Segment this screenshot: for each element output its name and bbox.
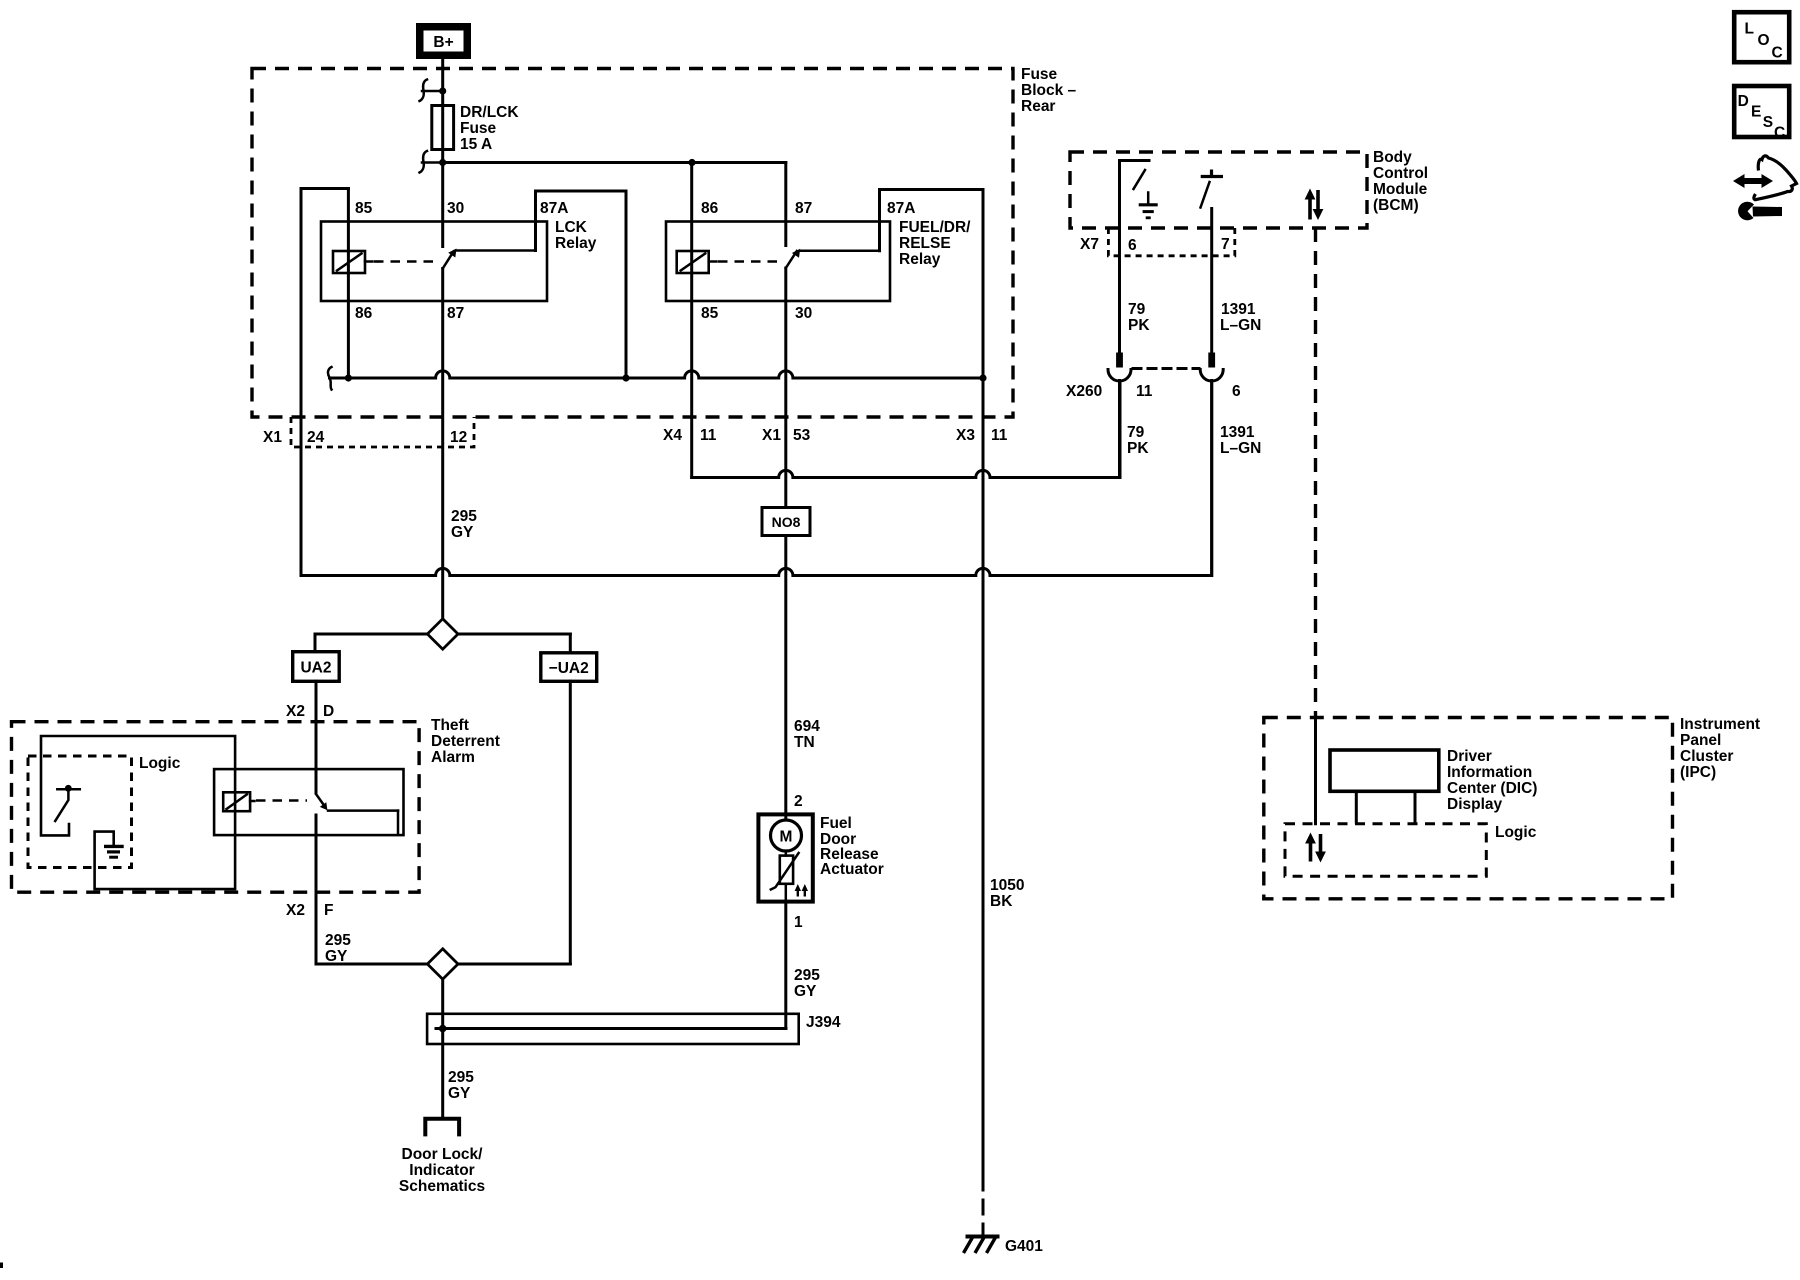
svg-text:11: 11 [1136, 383, 1153, 400]
svg-text:Panel: Panel [1680, 732, 1721, 749]
splice diamond upper [315, 619, 570, 649]
dashed serial data line BCM to IPC [1314, 228, 1317, 718]
svg-text:X260: X260 [1066, 383, 1102, 400]
BCM internal switch to ground (pin 6) [1120, 161, 1150, 190]
label: Fuse Block - Rear [1021, 66, 1077, 115]
svg-text:24: 24 [307, 429, 325, 446]
svg-text:Cluster: Cluster [1680, 748, 1733, 765]
terminal UA2 [293, 652, 340, 682]
svg-text:M: M [780, 829, 793, 846]
hand-drawn tools icon [1733, 156, 1797, 220]
svg-text:6: 6 [1128, 237, 1137, 254]
wire: fused B+ horizontal feed [443, 161, 786, 164]
svg-text:BK: BK [990, 893, 1013, 910]
svg-text:X2: X2 [286, 902, 305, 919]
svg-text:Center (DIC): Center (DIC) [1447, 780, 1537, 797]
wire: left branch down to X1-24 and splice line [300, 189, 303, 576]
B+ battery terminal [416, 23, 471, 59]
svg-text:Fuse: Fuse [1021, 66, 1058, 83]
wire label: 1391 L-GN upper [1220, 301, 1261, 334]
svg-text:NO8: NO8 [772, 514, 801, 530]
wire: lower splice horizontal [316, 963, 570, 966]
svg-text:Fuel: Fuel [820, 815, 852, 832]
wire: diamond to UA2 [314, 634, 317, 652]
svg-text:PK: PK [1128, 317, 1150, 334]
BCM internal switch (pin 7) [1201, 170, 1224, 208]
label: Driver Information Center (DIC) Display [1447, 748, 1537, 813]
splice pack J394 [427, 1014, 799, 1044]
svg-text:GY: GY [448, 1085, 471, 1102]
svg-text:C: C [1772, 45, 1783, 62]
connector X1 (fuse block) dashed outline [291, 417, 474, 447]
svg-text:87: 87 [447, 305, 464, 322]
svg-text:79: 79 [1128, 301, 1146, 318]
wire: B+ feed down to fuse [441, 59, 444, 106]
DIC display [1330, 750, 1439, 822]
theft alarm internal ground symbol [104, 846, 124, 857]
svg-text:J394: J394 [806, 1014, 841, 1031]
wire: serial data into IPC logic [1314, 718, 1317, 824]
svg-text:Module: Module [1373, 181, 1428, 198]
svg-text:C: C [1774, 125, 1785, 142]
svg-text:FUEL/DR/: FUEL/DR/ [899, 219, 971, 236]
in-line connector X260 pin 6 [1200, 353, 1223, 382]
label: connector X2 pin F [286, 902, 333, 919]
terminal -UA2 [541, 653, 597, 682]
wire label: 79 PK lower [1127, 424, 1149, 457]
label: DR/LCK Fuse 15 A [460, 104, 519, 153]
svg-text:X3: X3 [956, 427, 975, 444]
svg-text:295: 295 [451, 508, 477, 525]
wire label: 1391 L-GN lower [1220, 424, 1261, 457]
wire: diamond down to J394 [441, 979, 444, 1028]
svg-text:30: 30 [447, 200, 464, 217]
svg-text:1: 1 [794, 914, 803, 931]
wire: FUEL coil ground path to BCM with humps [692, 382, 1120, 478]
wire: long splice line from left branch to 1391 L-GN with humps [301, 382, 1212, 576]
svg-text:Alarm: Alarm [431, 749, 475, 766]
Fuse Block - Rear dashed enclosure [252, 69, 1013, 418]
svg-text:85: 85 [355, 200, 373, 217]
svg-text:Indicator: Indicator [409, 1162, 474, 1179]
svg-text:UA2: UA2 [300, 660, 331, 677]
svg-text:Actuator: Actuator [820, 861, 884, 878]
svg-text:Body: Body [1373, 149, 1412, 166]
svg-text:11: 11 [991, 427, 1008, 444]
svg-text:RELSE: RELSE [899, 235, 951, 252]
DESC reference box [1734, 86, 1789, 142]
junction: FUEL pin 87A wire to bus [979, 374, 986, 381]
Body Control Module (BCM) dashed enclosure [1070, 152, 1367, 228]
svg-text:87A: 87A [887, 200, 915, 217]
wire: X260 pin 11 down to corner [1118, 381, 1121, 478]
svg-text:295: 295 [794, 967, 820, 984]
svg-text:79: 79 [1127, 424, 1145, 441]
wire label: 295 GY (pin F) [325, 932, 351, 965]
svg-text:L–GN: L–GN [1220, 440, 1261, 457]
svg-text:6: 6 [1232, 383, 1241, 400]
wire: FUEL pin 30 down through NO8 to actuator [784, 268, 787, 820]
wire label: 1050 BK [990, 877, 1024, 910]
svg-text:11: 11 [700, 427, 717, 444]
wire: BCM pin 7 down to X260 [1210, 209, 1213, 353]
svg-text:X7: X7 [1080, 236, 1099, 253]
fuel door release actuator M1 [758, 814, 812, 901]
wire: -UA2 down to lower splice line [569, 681, 572, 964]
in-line connector symbol at B+ feed [420, 80, 447, 102]
svg-text:86: 86 [355, 305, 373, 322]
svg-text:15 A: 15 A [460, 136, 492, 153]
svg-text:O: O [1758, 32, 1770, 49]
theft alarm relay [214, 769, 403, 835]
BCM internal ground symbol [1139, 193, 1158, 218]
in-line connector symbol below fuse [420, 151, 447, 173]
svg-text:Information: Information [1447, 764, 1532, 781]
wire: actuator pin 1 down to J394 [784, 902, 787, 1029]
svg-text:Logic: Logic [139, 755, 181, 772]
svg-text:Deterrent: Deterrent [431, 733, 500, 750]
svg-text:Fuse: Fuse [460, 120, 497, 137]
svg-text:L–GN: L–GN [1220, 317, 1261, 334]
svg-text:PK: PK [1127, 440, 1149, 457]
wire: diamond to -UA2 [569, 634, 572, 653]
label: Theft Deterrent Alarm [431, 717, 500, 766]
svg-text:1391: 1391 [1221, 301, 1256, 318]
label: FUEL/DR/RELSE Relay [899, 219, 971, 268]
svg-text:Door Lock/: Door Lock/ [402, 1146, 484, 1163]
svg-text:B+: B+ [433, 34, 453, 51]
svg-text:G401: G401 [1005, 1238, 1043, 1255]
wire: fuse to junction [441, 150, 444, 163]
BCM serial data up/down arrows [1305, 189, 1324, 221]
svg-text:86: 86 [701, 200, 719, 217]
in-line connector X260 pin 11 [1108, 353, 1131, 382]
svg-text:694: 694 [794, 718, 820, 735]
svg-text:L: L [1745, 21, 1754, 38]
svg-text:295: 295 [325, 932, 351, 949]
svg-text:2: 2 [794, 793, 803, 810]
svg-text:GY: GY [451, 524, 474, 541]
svg-text:Theft: Theft [431, 717, 469, 734]
svg-text:1391: 1391 [1220, 424, 1255, 441]
wire: BCM pin 6 down to X260 [1118, 161, 1121, 353]
dashed tie between X260 halves [1133, 367, 1199, 370]
wire: J394 down to door lock schematics [441, 1029, 444, 1119]
theft alarm internal switch [55, 785, 80, 821]
in-line connector hook at bus left end [328, 367, 332, 390]
relay K2 FUEL/DR/RELSE Relay [666, 163, 983, 478]
svg-text:30: 30 [795, 305, 812, 322]
label: connector X2 pin D [286, 703, 334, 720]
svg-text:Relay: Relay [555, 235, 597, 252]
wire: jog pin85 to left branch [301, 187, 348, 190]
svg-text:TN: TN [794, 734, 815, 751]
IPC Logic dashed box [1285, 824, 1486, 877]
svg-text:Rear: Rear [1021, 98, 1055, 115]
wire: 1050 BK down to G401 [982, 378, 985, 1176]
LOC reference box [1734, 12, 1789, 62]
page corner mark [0, 1263, 3, 1269]
svg-text:7: 7 [1221, 236, 1230, 253]
label: Instrument Panel Cluster (IPC) [1680, 716, 1760, 781]
svg-text:DR/LCK: DR/LCK [460, 104, 519, 121]
svg-text:Block –: Block – [1021, 82, 1077, 99]
svg-text:(IPC): (IPC) [1680, 764, 1716, 781]
svg-text:Display: Display [1447, 796, 1503, 813]
junction: LCK pin 86 to bus [345, 374, 352, 381]
svg-text:X1: X1 [762, 427, 781, 444]
wire: UA2 down to theft deterrent alarm pin D [315, 681, 318, 793]
svg-text:1050: 1050 [990, 877, 1024, 894]
wire: X260 pin 6 down to corner [1210, 381, 1213, 576]
wire label: 295 GY (LCK 87 output) [451, 508, 477, 541]
svg-text:X1: X1 [263, 429, 282, 446]
ground G401 [964, 1237, 1044, 1256]
splice diamond lower [427, 949, 458, 979]
svg-text:Schematics: Schematics [399, 1178, 485, 1195]
svg-text:(BCM): (BCM) [1373, 197, 1419, 214]
label: Body Control Module (BCM) [1373, 149, 1428, 214]
off-page connector to door lock schematics [425, 1119, 459, 1137]
fuse DR/LCK 15A [432, 106, 454, 150]
svg-text:−UA2: −UA2 [549, 660, 589, 677]
svg-text:53: 53 [793, 427, 811, 444]
svg-text:D: D [1738, 93, 1749, 110]
wire label: 295 GY (actuator return) [794, 967, 820, 1000]
wire label: 694 TN [794, 718, 820, 751]
svg-text:X2: X2 [286, 703, 305, 720]
junction: LCK pin 87A to bus [622, 374, 629, 381]
label: LCK Relay [555, 219, 597, 252]
svg-text:E: E [1751, 104, 1761, 121]
Theft Deterrent Alarm dashed enclosure [12, 722, 420, 893]
svg-text:Relay: Relay [899, 251, 941, 268]
svg-text:LCK: LCK [555, 219, 588, 236]
label: Door Lock/Indicator Schematics [399, 1146, 485, 1195]
wire: LCK pin 87 down to splice diamond [441, 269, 444, 619]
svg-text:295: 295 [448, 1069, 474, 1086]
svg-text:GY: GY [794, 983, 817, 1000]
junction: feed to FUEL relay coil [688, 159, 695, 166]
theft alarm Logic dashed box [28, 756, 132, 868]
svg-text:X4: X4 [663, 427, 682, 444]
svg-text:S: S [1763, 114, 1773, 131]
label: Fuel Door Release Actuator [820, 815, 884, 878]
svg-text:87: 87 [795, 200, 812, 217]
svg-text:Driver: Driver [1447, 748, 1492, 765]
wire: ground bus inside fuse block with crossover humps [330, 371, 984, 378]
svg-text:Logic: Logic [1495, 824, 1537, 841]
wire label: 295 GY (to door lock) [448, 1069, 474, 1102]
connector X7 dashed outline [1108, 228, 1234, 256]
relay K1 LCK Relay [321, 163, 626, 379]
svg-text:D: D [323, 703, 334, 720]
svg-text:85: 85 [701, 305, 719, 322]
svg-text:Control: Control [1373, 165, 1428, 182]
theft alarm logic module outline [41, 736, 235, 889]
wire label: 79 PK upper [1128, 301, 1150, 334]
Instrument Panel Cluster (IPC) dashed enclosure [1264, 718, 1673, 899]
IPC serial data up/down arrows [1305, 833, 1326, 863]
splice label NO8 [762, 508, 810, 536]
svg-text:F: F [324, 902, 333, 919]
svg-text:GY: GY [325, 948, 348, 965]
svg-text:12: 12 [450, 429, 467, 446]
svg-text:Instrument: Instrument [1680, 716, 1760, 733]
wire: theft alarm pin F down [315, 815, 318, 964]
svg-text:87A: 87A [540, 200, 568, 217]
